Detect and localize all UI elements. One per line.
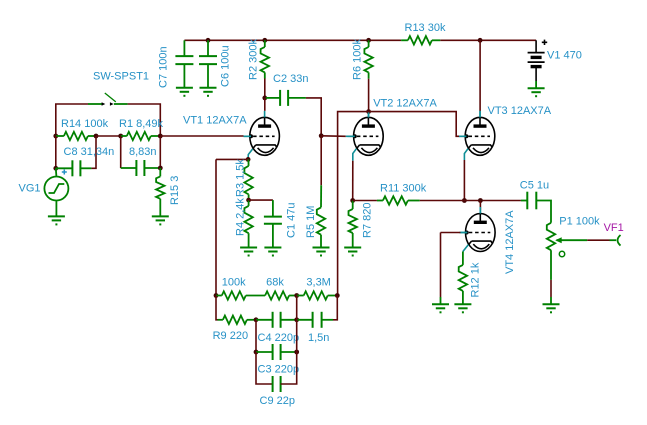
battery V1 ground lead: [535, 81, 537, 88]
resistor R13 left lead: [401, 39, 408, 41]
battery V1 plates: [528, 52, 545, 54]
svg-text:VT4 12AX7A: VT4 12AX7A: [504, 210, 516, 274]
op-amp VT1 tube 12AX7A: [250, 117, 280, 155]
resistor R6 bottom lead: [368, 72, 370, 78]
wire VT4 plate drop: [479, 201, 481, 211]
resistor R14 left lead: [56, 135, 64, 137]
capacitor C3 left lead: [256, 351, 273, 353]
node VT2 plate junction: [366, 109, 371, 114]
wire top B+ rail left section: [184, 39, 401, 41]
battery V1 top lead: [535, 40, 537, 52]
resistor R7 top lead: [352, 201, 354, 210]
wire VT2 cathode lead: [353, 149, 357, 161]
svg-text:P1 100k: P1 100k: [559, 215, 600, 227]
resistor R9 220: [223, 316, 247, 324]
wire R1 node down: [120, 136, 122, 168]
svg-text:C8 31,34n: C8 31,34n: [64, 146, 115, 158]
svg-text:C4 220p: C4 220p: [258, 332, 300, 344]
wire VT1 cathode to left: [216, 158, 248, 160]
wire VT1 grid stub: [244, 135, 251, 137]
resistor R11 300k: [383, 196, 408, 204]
svg-text:3,3M: 3,3M: [306, 277, 330, 289]
battery V1 bottom lead: [535, 67, 537, 81]
capacitor C9 22p: [272, 376, 274, 392]
wire VT4 grid: [441, 232, 461, 234]
capacitor C2 left lead: [266, 97, 280, 99]
svg-text:R15 3: R15 3: [169, 176, 181, 205]
capacitor C4 left lead: [256, 319, 273, 321]
capacitor C4 right lead: [281, 319, 297, 321]
capacitor C6 lead: [207, 40, 209, 56]
wire R1 node to VT1 grid: [160, 135, 243, 137]
capacitor 1,5n: [312, 312, 314, 328]
node 68k-3,3M junction: [294, 293, 299, 298]
node VT3 cathode output junction: [462, 198, 467, 203]
resistor R4 2,4k: [244, 206, 252, 233]
wire switch to R1 node: [128, 104, 161, 136]
resistor R12 top lead: [462, 252, 464, 265]
node rail-R6 junction: [366, 38, 371, 43]
capacitor C3 220p: [272, 344, 274, 360]
resistor R15 bottom lead: [159, 199, 161, 217]
wire 1,5n up to ladder right: [333, 296, 337, 320]
resistor R9 right lead: [247, 319, 256, 321]
ground under C1: [264, 247, 281, 249]
ground under R4: [240, 247, 257, 249]
wire VT2 grid: [321, 135, 346, 138]
wire 100k to 68k: [246, 295, 265, 297]
svg-text:R13 30k: R13 30k: [405, 22, 446, 34]
svg-text:R11 300k: R11 300k: [380, 182, 427, 194]
svg-text:R6 100k: R6 100k: [352, 39, 364, 80]
capacitor C8 plus sign: [62, 170, 67, 175]
node rail-R2 junction: [262, 38, 267, 43]
svg-text:68k: 68k: [266, 277, 284, 289]
ground under C6: [200, 87, 217, 89]
op-amp VT4 tube 12AX7A: [466, 214, 496, 252]
wire VT2 plate stub: [368, 112, 370, 118]
capacitor C1 47u: [264, 216, 282, 218]
wire VT2 plate to VT3 grid: [338, 112, 460, 296]
op-amp VT2 tube 12AX7A: [354, 117, 384, 155]
svg-text:C9 22p: C9 22p: [260, 395, 295, 407]
resistor R14 100k: [64, 132, 88, 140]
node R9-C4 junction: [254, 317, 259, 322]
capacitor C4 220p: [272, 312, 274, 328]
wire VG1 node down: [55, 136, 57, 168]
resistor 3,3M right lead: [328, 295, 338, 297]
node R3-R4-C1 junction: [246, 198, 251, 203]
resistor R14 right lead: [88, 135, 96, 137]
resistor R2 bottom lead: [264, 72, 266, 78]
wire VF1 lead: [610, 239, 617, 241]
resistor R2 top lead: [264, 40, 266, 47]
svg-text:C1 47u: C1 47u: [286, 203, 298, 238]
wire VT1 plate up: [264, 98, 266, 111]
resistor R11 left lead: [377, 200, 383, 202]
resistor R5 1M: [317, 207, 325, 234]
resistor R5 bottom lead: [320, 235, 322, 248]
source VG1 top lead: [55, 168, 58, 176]
svg-text:R2 300k: R2 300k: [248, 39, 260, 80]
svg-text:R1 8,49k: R1 8,49k: [119, 118, 164, 130]
svg-text:VG1: VG1: [19, 183, 41, 195]
node R1-8_83n junction: [118, 134, 123, 139]
resistor R4 top lead: [248, 200, 250, 206]
wire top B+ rail right section: [440, 39, 536, 41]
resistor R2 300k: [261, 47, 269, 72]
capacitor C7 lead: [183, 40, 185, 56]
node R1-R15 junction: [158, 134, 163, 139]
potentiometer P1 bottom lead: [550, 250, 552, 280]
svg-text:C5 1u: C5 1u: [520, 180, 549, 192]
wire R7 node to R11: [353, 200, 377, 202]
wire R14 to R1: [96, 135, 121, 137]
svg-text:1,5n: 1,5n: [308, 332, 329, 344]
resistor R6 100k: [364, 47, 372, 72]
svg-text:VT2 12AX7A: VT2 12AX7A: [373, 98, 437, 110]
ground under R15: [152, 215, 169, 217]
switch SW-SPST1: [88, 103, 102, 105]
svg-text:VT1 12AX7A: VT1 12AX7A: [183, 115, 247, 127]
wire VT3 plate stub: [479, 111, 481, 117]
wire ladder left down: [216, 296, 218, 320]
capacitor C5 right lead: [536, 201, 551, 223]
capacitor 8,83n right lead: [144, 167, 160, 169]
resistor R13 30k: [408, 36, 432, 44]
capacitor 8,83n: [135, 160, 137, 176]
wire wiper to VF1: [587, 239, 609, 241]
svg-text:R9 220: R9 220: [213, 330, 248, 342]
potentiometer P1 wiper: [557, 239, 588, 241]
node R15 top junction: [158, 166, 163, 171]
capacitor C7: [175, 55, 193, 57]
wire C4 junction down: [296, 320, 298, 352]
node C4-1,5n junction: [294, 317, 299, 322]
resistor R1 8,49k: [127, 132, 151, 140]
resistor R3 bottom lead: [248, 194, 250, 200]
capacitor C3 right lead: [281, 351, 297, 353]
svg-text:C2 33n: C2 33n: [273, 73, 308, 85]
svg-text:C3 220p: C3 220p: [258, 364, 300, 376]
resistor R1 left lead: [121, 135, 127, 137]
wire 68k junction down: [296, 296, 298, 320]
resistor R12 1k: [459, 265, 467, 291]
wire C9 right up: [281, 352, 297, 384]
wire VT1 cathode lead: [248, 149, 253, 159]
svg-text:R14 100k: R14 100k: [61, 118, 109, 130]
node VT1 cathode junction: [246, 157, 251, 162]
ground under R5: [313, 247, 330, 249]
wire VG1 node up to switch: [56, 104, 88, 136]
terminal VF1 probe: [618, 235, 621, 246]
wire VT4 grid ground lead: [440, 297, 442, 304]
svg-text:R3 1,5k: R3 1,5k: [235, 159, 247, 197]
resistor R4 bottom lead: [248, 233, 250, 247]
node VT4 plate junction: [478, 198, 483, 203]
wire left column down to ladder: [215, 159, 217, 295]
potentiometer P1 100k: [547, 223, 555, 250]
ground under V1: [528, 87, 545, 89]
resistor R6 top lead: [368, 40, 370, 47]
capacitor C6 bottom lead: [207, 64, 209, 88]
node R14-C8 junction: [94, 134, 99, 139]
resistor R1 right lead: [151, 135, 161, 137]
ground under C7: [176, 87, 193, 89]
node C3 left junction: [254, 350, 259, 355]
resistor 3,3M left lead: [297, 295, 304, 297]
wire VT3 grid stub: [460, 135, 467, 137]
svg-text:V1 470: V1 470: [547, 50, 582, 62]
svg-text:R7 820: R7 820: [362, 203, 374, 238]
capacitor C8 31,34n: [71, 160, 73, 176]
resistor 100k: [222, 291, 246, 299]
capacitor C8 right lead: [80, 167, 91, 169]
resistor R7 820: [349, 209, 357, 233]
capacitor C8 left lead: [56, 167, 73, 169]
wire C8 up to R14 node: [91, 136, 96, 168]
resistor 100k left lead: [216, 295, 222, 297]
capacitor 1,5n right lead: [322, 319, 333, 321]
svg-text:8,83n: 8,83n: [129, 146, 157, 158]
source VG1 bottom lead: [55, 201, 57, 217]
wire VT3 cathode lead: [464, 149, 468, 160]
svg-text:SW-SPST1: SW-SPST1: [93, 71, 149, 83]
svg-text:R4 2,4k: R4 2,4k: [235, 198, 247, 236]
svg-text:R12 1k: R12 1k: [470, 262, 482, 297]
svg-text:C7 100n: C7 100n: [158, 46, 170, 88]
resistor R5 top lead: [320, 185, 322, 207]
wire VT2 grid stub: [346, 135, 355, 137]
wire C2 to VT2 grid node: [306, 98, 321, 136]
wire R9 junction down: [255, 320, 257, 352]
node rail-C6 junction: [206, 38, 211, 43]
resistor R13 right lead: [432, 39, 440, 41]
capacitor C1 top lead: [272, 200, 274, 217]
svg-text:VF1: VF1: [604, 222, 624, 234]
svg-text:C6 100u: C6 100u: [220, 45, 232, 87]
capacitor C7 bottom lead: [183, 64, 185, 88]
resistor 3,3M: [304, 291, 328, 299]
resistor R15 top lead: [159, 168, 161, 176]
ground under R7: [344, 247, 361, 249]
capacitor C2 right lead: [288, 97, 306, 99]
source VG1: [44, 177, 68, 201]
node R7-R11 junction: [350, 198, 355, 203]
op-amp VT3 tube 12AX7A: [465, 117, 495, 155]
wire VT4 grid stub: [461, 232, 468, 234]
node ladder left junction: [214, 293, 219, 298]
node R2-C2-VT1 plate junction: [262, 96, 267, 101]
wire P1 to ground: [550, 280, 552, 297]
wire R1 node down to R15: [159, 136, 161, 168]
capacitor C5 1u: [526, 192, 528, 210]
wire R11 to C5: [420, 200, 521, 202]
resistor 68k right lead: [289, 295, 297, 297]
wire R6 to VT2 plate node: [368, 79, 370, 112]
ground under VT4 grid: [432, 303, 449, 305]
wire R2 to VT1 plate node: [264, 79, 266, 98]
resistor R7 bottom lead: [352, 233, 354, 248]
wire VT4 plate stub: [479, 210, 481, 214]
resistor R12 bottom lead: [462, 291, 464, 304]
node rail-VT3 junction: [478, 38, 483, 43]
capacitor 8,83n left lead: [121, 167, 137, 169]
node ladder right junction: [335, 293, 340, 298]
capacitor 1,5n left lead: [297, 319, 313, 321]
wire VT2 cathode down to R7: [352, 161, 354, 201]
node VG1-R14 junction: [53, 134, 58, 139]
svg-text:R5 1M: R5 1M: [305, 206, 317, 238]
capacitor C5 left lead: [521, 200, 527, 202]
battery V1 plus sign: [542, 40, 547, 45]
wire R4 node to C1: [249, 199, 273, 201]
ground under R12: [454, 303, 471, 305]
ground under VG1: [48, 215, 65, 217]
capacitor C2 33n: [279, 90, 281, 106]
wire VT3 cathode down: [463, 160, 465, 201]
potentiometer P1 ground lead: [550, 297, 552, 304]
capacitor C6: [199, 55, 217, 57]
wire VT2 grid node down to R5: [320, 136, 322, 185]
capacitor C1 bottom lead: [272, 224, 274, 248]
resistor R15 3: [156, 176, 164, 198]
ground under P1: [543, 303, 560, 305]
resistor R9 left lead: [218, 319, 223, 321]
resistor R11 right lead: [408, 200, 420, 202]
wire C3 left down: [256, 352, 273, 384]
svg-text:100k: 100k: [222, 276, 246, 288]
wire VT4 cathode lead: [463, 245, 468, 252]
wire VT4 grid down to ground: [440, 233, 442, 298]
svg-text:VT3 12AX7A: VT3 12AX7A: [488, 105, 552, 117]
resistor 68k: [265, 291, 289, 299]
node VT2 grid junction: [319, 133, 324, 138]
wire rail to VT3 plate: [479, 40, 481, 111]
resistor R3 top lead: [247, 159, 249, 166]
node C3 right junction: [294, 350, 299, 355]
node C8 left junction: [53, 166, 58, 171]
resistor R3 1,5k: [244, 166, 252, 195]
